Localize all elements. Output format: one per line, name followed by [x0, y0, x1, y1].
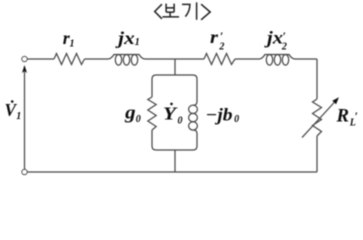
svg-text:0: 0 [234, 114, 239, 125]
svg-text:jx: jx [263, 28, 283, 48]
svg-text:′: ′ [220, 29, 223, 43]
svg-text:g: g [124, 104, 136, 124]
svg-text:R: R [335, 107, 349, 127]
svg-text:Y: Y [163, 103, 179, 123]
svg-text:2: 2 [281, 42, 287, 53]
svg-text:′: ′ [283, 29, 286, 43]
svg-text:1: 1 [70, 38, 75, 49]
svg-text:1: 1 [16, 111, 21, 122]
svg-text:1: 1 [135, 37, 140, 48]
svg-text:−jb: −jb [206, 105, 233, 125]
svg-text:jx: jx [115, 28, 135, 48]
svg-text:0: 0 [178, 115, 183, 126]
svg-text:0: 0 [136, 114, 141, 125]
svg-text:r: r [210, 27, 218, 47]
svg-text:′: ′ [355, 109, 358, 123]
svg-text:2: 2 [218, 42, 224, 53]
